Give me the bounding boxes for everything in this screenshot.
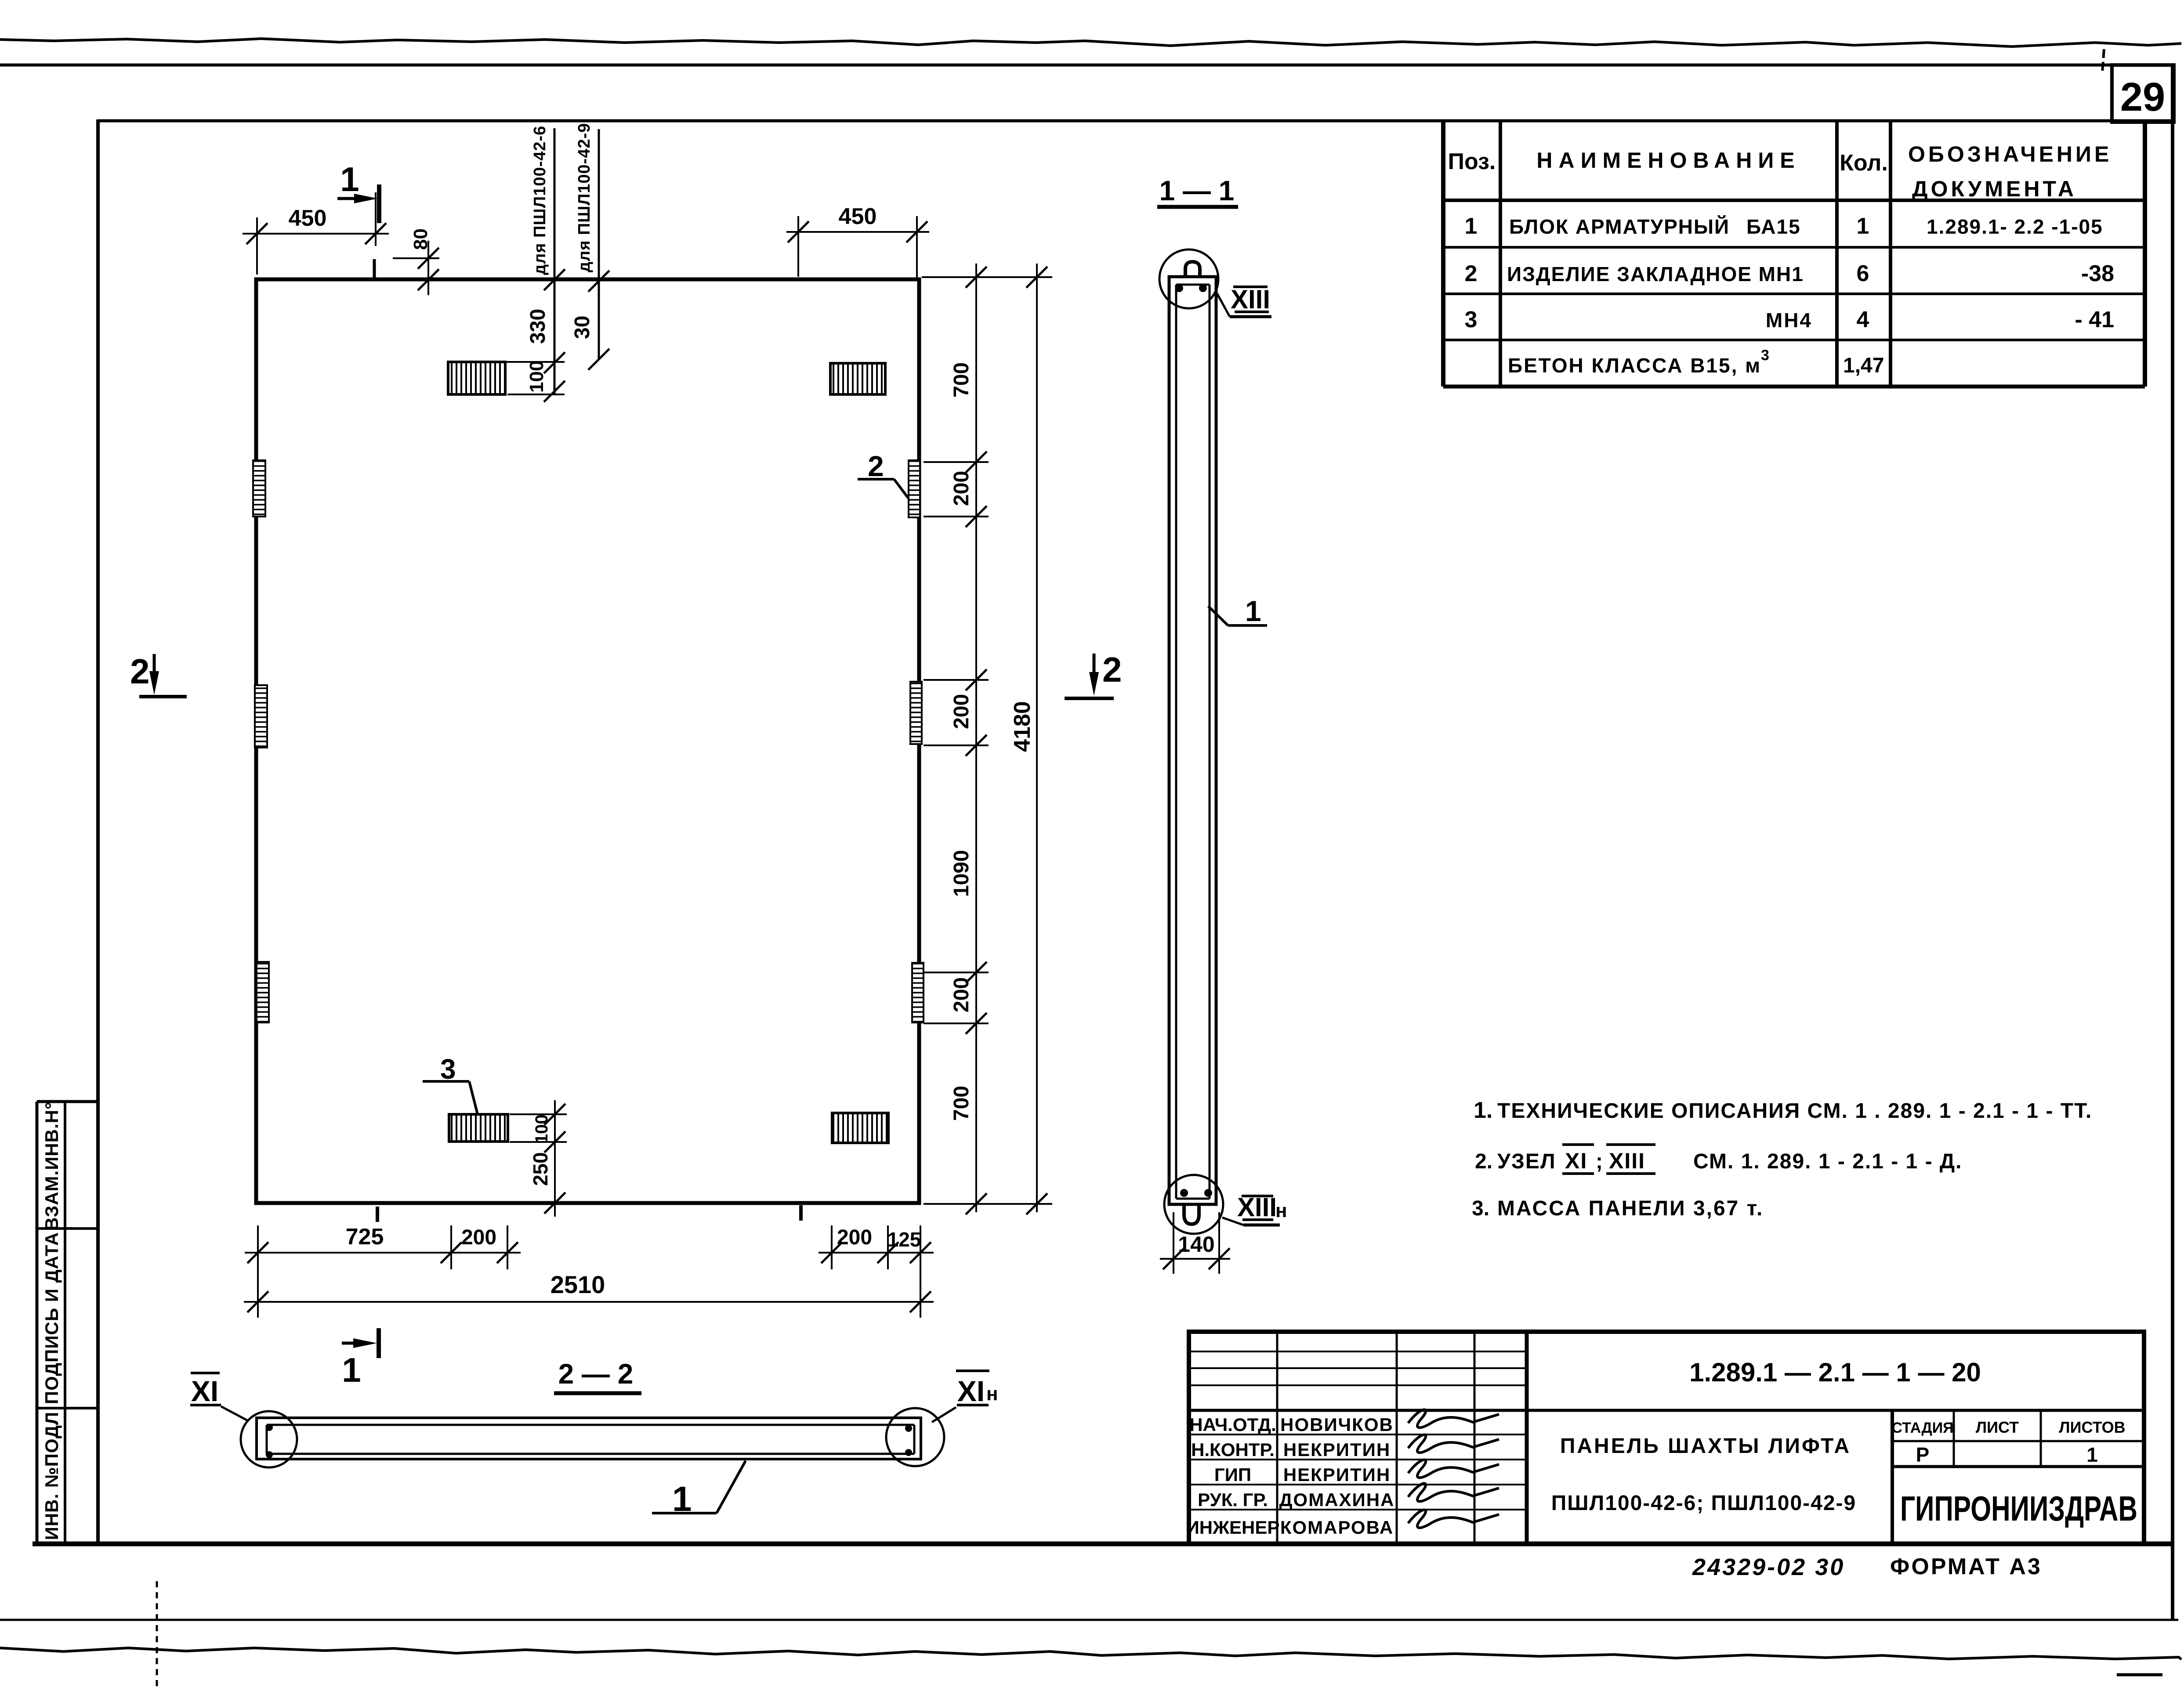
svg-text:ДОМАХИНА: ДОМАХИНА — [1279, 1489, 1395, 1510]
svg-text:30: 30 — [571, 316, 594, 339]
frame: sheet number box — [2112, 65, 2174, 122]
svg-text:Р: Р — [1916, 1443, 1930, 1466]
embedded item MH4 top-left hatched plate — [448, 362, 505, 394]
svg-text:для ПШЛ100-42-9: для ПШЛ100-42-9 — [575, 123, 594, 272]
svg-text:для ПШЛ100-42-6: для ПШЛ100-42-6 — [531, 126, 549, 275]
svg-text:200: 200 — [837, 1226, 872, 1249]
svg-text:1: 1 — [342, 1351, 361, 1389]
svg-text:НАЧ.ОТД.: НАЧ.ОТД. — [1189, 1414, 1276, 1435]
svg-text:ЛИСТ: ЛИСТ — [1976, 1418, 2019, 1436]
svg-text:700: 700 — [950, 1086, 973, 1121]
dimension 2510 total — [244, 1301, 934, 1303]
embedded item MH1 right bottom — [912, 963, 924, 1023]
rebar dots top — [1175, 284, 1183, 292]
svg-text:XI: XI — [1565, 1149, 1587, 1173]
svg-text:ПОДПИСЬ И ДАТА: ПОДПИСЬ И ДАТА — [41, 1232, 62, 1404]
rebar dots bottom — [1180, 1189, 1188, 1197]
svg-text:КОМАРОВА: КОМАРОВА — [1280, 1517, 1394, 1538]
svg-text:1: 1 — [340, 160, 359, 199]
svg-text:ИНЖЕНЕР: ИНЖЕНЕР — [1186, 1517, 1280, 1538]
svg-text:ФОРМАТ А3: ФОРМАТ А3 — [1890, 1554, 2042, 1579]
svg-text:XI: XI — [957, 1375, 985, 1407]
detail circle XIII top — [1159, 249, 1218, 308]
svg-text:3: 3 — [1465, 307, 1478, 332]
svg-text:ЛИСТОВ: ЛИСТОВ — [2059, 1418, 2125, 1436]
svg-text:1090: 1090 — [950, 850, 973, 897]
titleblock: verticals left part — [1276, 1332, 1279, 1544]
svg-text:2510: 2510 — [551, 1271, 605, 1298]
svg-text:1,47: 1,47 — [1843, 354, 1884, 377]
svg-text:1.289.1 — 2.1 — 1 — 20: 1.289.1 — 2.1 — 1 — 20 — [1689, 1358, 1981, 1387]
svg-text:-38: -38 — [2081, 261, 2114, 286]
lifting loop bottom — [1184, 1204, 1199, 1224]
frame: left border line — [96, 119, 100, 1546]
dimension 100 / 250 bottom — [510, 1113, 567, 1115]
svg-text:100: 100 — [532, 1114, 551, 1144]
titleblock: thin top rows — [1189, 1351, 1527, 1352]
svg-text:н: н — [1275, 1200, 1287, 1221]
svg-text:4180: 4180 — [1010, 701, 1035, 752]
titleblock: stage grid — [1891, 1410, 1894, 1544]
svg-text:ГИП: ГИП — [1214, 1464, 1251, 1485]
svg-text:725: 725 — [346, 1224, 384, 1250]
detail circle XIн — [886, 1408, 944, 1466]
wire: bottom straight paper line — [0, 1619, 2178, 1621]
frame: right border line — [2171, 65, 2174, 1620]
table: specification table grid — [1441, 121, 1445, 387]
svg-text:ГИПРОНИИЗДРАВ: ГИПРОНИИЗДРАВ — [1900, 1489, 2137, 1528]
svg-text:СТАДИЯ: СТАДИЯ — [1891, 1420, 1953, 1436]
sidebar: stamp column boxes — [36, 1102, 39, 1544]
svg-text:;: ; — [1596, 1150, 1603, 1173]
section marker 2 right — [1093, 654, 1096, 683]
wire: torn paper edge top — [0, 39, 2181, 47]
svg-text:2: 2 — [1465, 261, 1478, 286]
svg-text:6: 6 — [1857, 261, 1869, 286]
frame: outer top border line — [0, 64, 2114, 67]
svg-text:УЗЕЛ: УЗЕЛ — [1497, 1150, 1556, 1173]
section 1-1 body — [1169, 277, 1216, 1204]
svg-text:Н.КОНТР.: Н.КОНТР. — [1191, 1439, 1275, 1460]
svg-text:XIII: XIII — [1609, 1149, 1645, 1173]
svg-text:БЛОК АРМАТУРНЫЙ: БЛОК АРМАТУРНЫЙ — [1509, 215, 1730, 238]
svg-text:1: 1 — [2086, 1443, 2098, 1466]
svg-text:ВЗАМ.ИНВ.Н°: ВЗАМ.ИНВ.Н° — [41, 1102, 62, 1231]
frame: bottom border line — [33, 1542, 2174, 1546]
node line B (для ПШЛ100-42-9) — [598, 129, 600, 360]
section marker 1 (top) — [337, 197, 369, 200]
svg-text:29: 29 — [2120, 75, 2165, 119]
svg-text:СМ. 1. 289. 1 - 2.1 - 1 - Д.: СМ. 1. 289. 1 - 2.1 - 1 - Д. — [1693, 1150, 1962, 1173]
svg-text:1.: 1. — [1474, 1098, 1492, 1123]
svg-text:МН4: МН4 — [1766, 309, 1812, 332]
svg-text:24329-02 30: 24329-02 30 — [1692, 1554, 1845, 1580]
section marker 1 (bottom) — [342, 1342, 368, 1345]
titleblock: name rows — [1189, 1434, 1527, 1435]
embedded item MH1 right middle — [910, 682, 922, 744]
svg-text:- 41: - 41 — [2075, 307, 2114, 332]
detail circle XIIIн bottom — [1164, 1175, 1223, 1234]
svg-text:НЕКРИТИН: НЕКРИТИН — [1283, 1439, 1391, 1460]
svg-text:450: 450 — [289, 206, 327, 231]
svg-text:ДОКУМЕНТА: ДОКУМЕНТА — [1912, 177, 2077, 201]
svg-text:700: 700 — [950, 362, 973, 397]
svg-text:НОВИЧКОВ: НОВИЧКОВ — [1280, 1414, 1394, 1435]
embedded item MH1 right top — [909, 460, 920, 517]
svg-text:НАИМЕНОВАНИЕ: НАИМЕНОВАНИЕ — [1536, 148, 1800, 173]
svg-text:1.289.1- 2.2 -1-05: 1.289.1- 2.2 -1-05 — [1927, 215, 2103, 238]
svg-text:4: 4 — [1857, 307, 1869, 332]
svg-text:1 — 1: 1 — 1 — [1159, 175, 1235, 206]
embedded item MH4 top-right hatched plate — [830, 363, 885, 394]
node line A (для ПШЛ100-42-6) — [554, 128, 556, 395]
svg-text:200: 200 — [950, 694, 973, 729]
svg-text:н: н — [986, 1383, 998, 1405]
wire: small tick above sheet number box — [2102, 49, 2104, 72]
svg-text:250: 250 — [529, 1152, 552, 1186]
section 2-2 body — [257, 1418, 921, 1459]
detail circle XI — [241, 1411, 297, 1467]
label XIIIн — [1222, 1218, 1243, 1225]
svg-text:ОБОЗНАЧЕНИЕ: ОБОЗНАЧЕНИЕ — [1908, 142, 2112, 166]
svg-text:100: 100 — [526, 361, 547, 393]
svg-text:3: 3 — [1761, 347, 1769, 364]
svg-text:2 — 2: 2 — 2 — [558, 1358, 634, 1390]
svg-text:330: 330 — [526, 309, 550, 344]
svg-text:XIII: XIII — [1231, 285, 1270, 314]
wire: fold mark dashed bottom-left — [156, 1581, 158, 1689]
dimension 140 — [1173, 1212, 1174, 1274]
svg-text:Кол.: Кол. — [1840, 150, 1888, 176]
svg-text:РУК. ГР.: РУК. ГР. — [1198, 1489, 1268, 1510]
wire: witness stub left of 80 dim — [373, 259, 376, 280]
svg-text:ТЕХНИЧЕСКИЕ ОПИСАНИЯ СМ. 1 .: ТЕХНИЧЕСКИЕ ОПИСАНИЯ СМ. 1 . 289. 1 - 2.… — [1497, 1099, 2092, 1123]
titleblock: outer — [1189, 1332, 2144, 1544]
rebar dots section 2-2 — [266, 1424, 273, 1431]
svg-text:XI: XI — [191, 1375, 218, 1407]
svg-text:1: 1 — [1465, 213, 1478, 239]
svg-text:140: 140 — [1178, 1232, 1214, 1257]
dimension 450 top-right — [786, 231, 929, 233]
svg-text:1: 1 — [1857, 213, 1869, 239]
svg-text:80: 80 — [410, 228, 431, 250]
svg-text:1: 1 — [1245, 595, 1261, 627]
embedded item MH1 left bottom — [257, 962, 269, 1023]
panel: main elevation rectangle — [256, 279, 919, 1203]
embedded item MH1 left top — [253, 460, 265, 517]
dimension 100 (top plate) — [477, 361, 565, 363]
svg-text:ПШЛ100-42-6; ПШЛ100-42-9: ПШЛ100-42-6; ПШЛ100-42-9 — [1551, 1492, 1856, 1515]
svg-text:3.: 3. — [1472, 1197, 1489, 1220]
svg-text:МАССА ПАНЕЛИ 3,67 т.: МАССА ПАНЕЛИ 3,67 т. — [1497, 1197, 1764, 1220]
wire: torn paper edge bottom — [0, 1648, 2181, 1659]
embedded item MH4 bottom-left hatched plate — [449, 1114, 508, 1142]
lifting loop top — [1185, 262, 1200, 277]
dimension 450 top-left — [243, 233, 389, 235]
svg-text:2.: 2. — [1475, 1150, 1492, 1173]
svg-text:200: 200 — [950, 977, 973, 1012]
svg-text:450: 450 — [839, 204, 877, 229]
titleblock: signatures — [1408, 1409, 1499, 1427]
dimension 80 top-left — [393, 257, 439, 259]
svg-text:НЕКРИТИН: НЕКРИТИН — [1283, 1464, 1391, 1485]
svg-text:БЕТОН КЛАССА В15, м: БЕТОН КЛАССА В15, м — [1508, 354, 1761, 377]
svg-text:ПАНЕЛЬ ШАХТЫ ЛИФТА: ПАНЕЛЬ ШАХТЫ ЛИФТА — [1560, 1434, 1851, 1458]
svg-text:БА15: БА15 — [1746, 215, 1801, 238]
wire: bottom-right short line — [2117, 1673, 2162, 1677]
dimension 200 / 125 bottom right — [819, 1252, 934, 1254]
frame: inner top border line — [98, 119, 2174, 123]
svg-text:ИНВ. №ПОДЛ: ИНВ. №ПОДЛ — [41, 1412, 62, 1540]
label XIII — [1217, 293, 1230, 317]
svg-text:2: 2 — [130, 652, 150, 691]
svg-text:Поз.: Поз. — [1448, 149, 1496, 174]
svg-text:2: 2 — [868, 450, 884, 482]
titleblock: main divider row — [1189, 1409, 2144, 1412]
dimension 725 / 200 bottom left — [245, 1252, 521, 1254]
dimension chain right (700/200/..) — [975, 264, 977, 1212]
embedded item MH4 bottom-right hatched plate — [832, 1113, 888, 1143]
svg-text:200: 200 — [950, 471, 973, 506]
svg-text:ИЗДЕЛИЕ ЗАКЛАДНОЕ МН1: ИЗДЕЛИЕ ЗАКЛАДНОЕ МН1 — [1507, 263, 1804, 285]
svg-text:200: 200 — [461, 1226, 496, 1249]
embedded item MH1 left middle — [255, 685, 267, 748]
svg-text:125: 125 — [887, 1228, 921, 1251]
svg-text:2: 2 — [1102, 650, 1122, 689]
wire: witness stubs below panel — [376, 1207, 379, 1222]
